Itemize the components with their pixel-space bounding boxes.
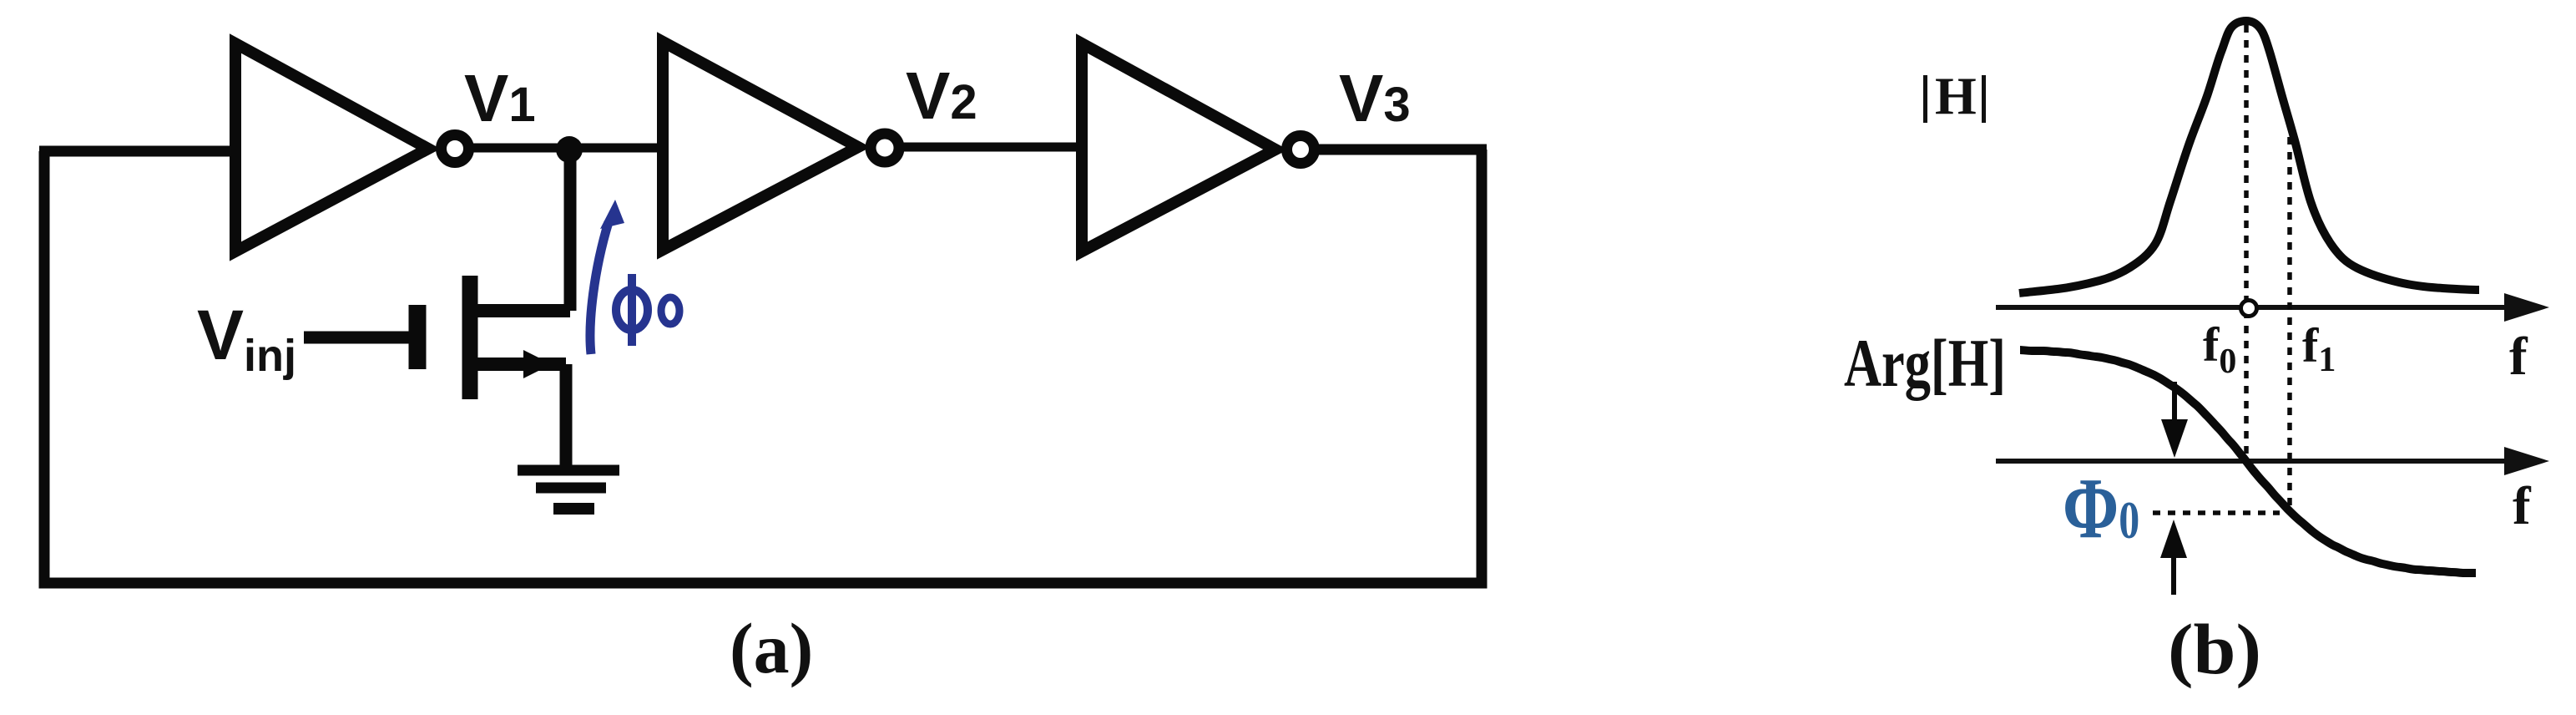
- transistor M1 channel bar: [462, 276, 478, 399]
- svg-text:f0: f0: [2203, 317, 2236, 381]
- inverter U3 output bubble: [1287, 136, 1315, 164]
- wire V2 net: [900, 143, 1082, 152]
- svg-text:Vinj: Vinj: [197, 296, 296, 381]
- dashed level line at phi0: [2153, 510, 2280, 515]
- injected phase blue arrow: [590, 222, 609, 354]
- label phi0 (a) : subscript 0: [661, 297, 679, 324]
- inverter U2 output bubble: [871, 134, 899, 162]
- down arrow from curve to axis: [2172, 382, 2177, 426]
- wire V1 net: [469, 144, 659, 153]
- dotted line at f1: [2287, 137, 2292, 511]
- ground symbol: [518, 465, 619, 476]
- svg-text:f: f: [2509, 327, 2528, 387]
- |H| resonance curve: [2019, 21, 2479, 293]
- frequency axis of Arg[H] plot: [1996, 459, 2513, 464]
- svg-text:f: f: [2513, 476, 2532, 536]
- wire V3 net to loop: [1315, 145, 1487, 155]
- frequency axis of |H| plot: [1996, 305, 2513, 310]
- svg-text:Arg[H]: Arg[H]: [1844, 325, 2006, 401]
- Arg[H] phase curve: [2020, 350, 2476, 573]
- transistor M1 gate bar: [409, 305, 427, 369]
- wire junction down to transistor drain: [564, 150, 577, 311]
- axis arrowhead f (lower): [2504, 447, 2549, 475]
- wire Vinj to gate: [304, 332, 414, 344]
- inverter U1: [235, 43, 428, 251]
- inverter U3: [1082, 43, 1275, 251]
- small circle marker at f0 on axis: [2241, 301, 2257, 317]
- transistor M1 source lead with arrow: [470, 357, 566, 371]
- wire feedback loop left+bottom+right: [44, 150, 1482, 583]
- svg-text:Φ0: Φ0: [2063, 461, 2139, 557]
- label phi0 (a) : phi loop: [616, 290, 648, 330]
- svg-text:(b): (b): [2168, 609, 2261, 689]
- svg-text:V2: V2: [906, 58, 977, 133]
- axis arrowhead f (upper): [2504, 293, 2549, 322]
- wire source down to ground: [560, 364, 573, 468]
- svg-text:V1: V1: [464, 61, 536, 135]
- inverter U2: [663, 42, 858, 250]
- label phi0 (a) : phi stem: [628, 274, 636, 346]
- wire input to inverter U1: [39, 146, 237, 157]
- dotted line at f0: [2244, 25, 2249, 460]
- transistor M1 drain lead: [470, 304, 570, 317]
- svg-text:H: H: [1935, 66, 1977, 125]
- inverter U1 output bubble: [442, 135, 469, 163]
- up arrow below phi0 level: [2171, 551, 2176, 595]
- svg-text:V3: V3: [1339, 61, 1411, 135]
- transistor M1 source arrowhead: [523, 350, 552, 378]
- svg-text:f1: f1: [2302, 318, 2336, 379]
- blue arrowhead: [600, 200, 624, 229]
- node V1 junction dot: [556, 136, 583, 163]
- svg-text:(a): (a): [730, 608, 813, 688]
